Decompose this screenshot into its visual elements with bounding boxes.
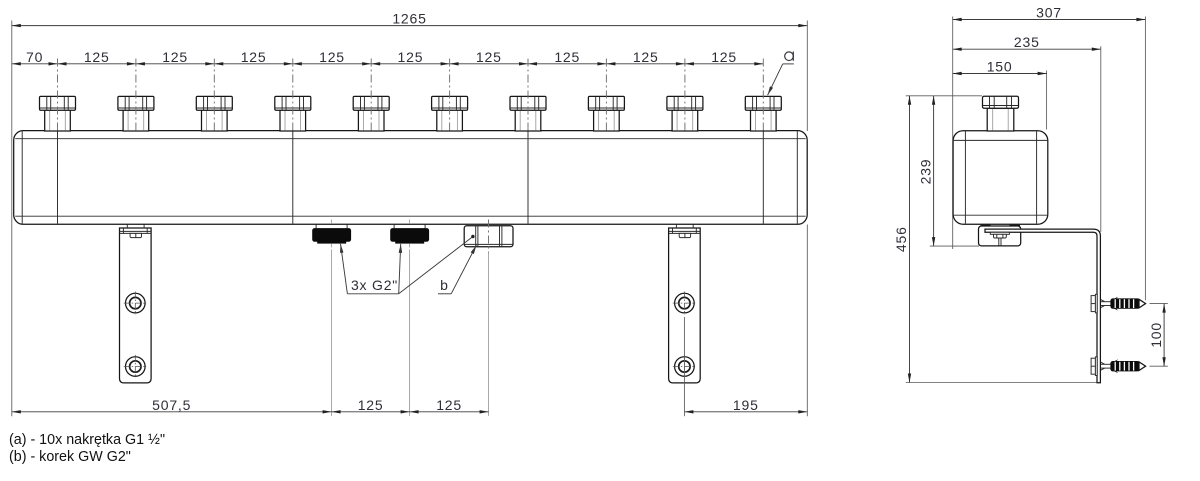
union nut N2 <box>118 59 154 132</box>
bottom dimension chain 507,5 / 125 / 125 <box>12 411 489 413</box>
svg-text:235: 235 <box>1014 34 1040 50</box>
union nut N8 <box>588 59 624 132</box>
dimension 307 <box>953 19 1146 21</box>
union nut N5 <box>353 59 389 132</box>
svg-text:100: 100 <box>1148 322 1164 348</box>
svg-text:456: 456 <box>893 226 909 252</box>
chamber weld seam 1 <box>57 131 59 224</box>
svg-text:125: 125 <box>241 49 267 65</box>
svg-text:195: 195 <box>733 397 759 413</box>
union nut N10 <box>745 59 781 132</box>
svg-text:150: 150 <box>987 58 1013 74</box>
svg-text:125: 125 <box>476 49 502 65</box>
leader label b <box>438 245 476 294</box>
union nut N1 <box>40 59 76 132</box>
note a <box>9 432 165 448</box>
svg-text:307: 307 <box>1036 4 1062 20</box>
mounting bracket W1 <box>120 224 152 383</box>
dimension 195 <box>684 411 807 413</box>
plug b (korek GW G2) <box>464 220 513 416</box>
mounting bracket W2 <box>669 224 701 383</box>
side view extension lines <box>952 17 954 250</box>
union nut N6 <box>432 59 468 132</box>
dimension 235 <box>953 48 1101 50</box>
svg-text:3x G2": 3x G2" <box>351 277 398 293</box>
leader label a <box>768 52 794 96</box>
bottom outlet cap K1 (black) <box>313 220 351 416</box>
dimension 1265 overall length <box>12 25 808 27</box>
wall anchor screw S1 <box>1091 294 1146 313</box>
svg-text:125: 125 <box>554 49 580 65</box>
svg-text:70: 70 <box>26 49 43 65</box>
svg-text:125: 125 <box>84 49 110 65</box>
side view union nut <box>983 96 1019 131</box>
union nut N4 <box>275 59 311 132</box>
dimension 150 <box>953 73 1047 75</box>
dimension chain 70 + 9x125 <box>12 63 764 65</box>
side view stud washer and nut <box>990 232 1009 245</box>
left end cap seam <box>21 131 23 224</box>
svg-text:1265: 1265 <box>392 11 426 27</box>
svg-text:b: b <box>440 277 448 293</box>
body top tangent line <box>15 138 806 140</box>
right end cap seam <box>796 131 798 224</box>
chamber weld seam 2 <box>292 131 294 224</box>
body bottom tangent line <box>15 215 806 217</box>
svg-text:125: 125 <box>358 397 384 413</box>
bottom outlet cap K2 (black) <box>391 220 429 416</box>
chamber weld seam 4 <box>762 131 764 224</box>
union nut N9 <box>667 59 703 132</box>
extension line left <box>11 21 13 417</box>
wall bracket L-profile (side) <box>985 229 1100 383</box>
union nut N3 <box>196 59 232 132</box>
dimension 239 <box>933 96 935 246</box>
svg-text:507,5: 507,5 <box>152 397 191 413</box>
chamber weld seam 3 <box>527 131 529 224</box>
side view manifold body <box>953 131 1048 225</box>
svg-text:125: 125 <box>162 49 188 65</box>
dimension 456 <box>909 96 911 383</box>
svg-text:125: 125 <box>711 49 737 65</box>
side view bottom union nut <box>979 225 1021 246</box>
svg-text:125: 125 <box>436 397 462 413</box>
svg-text:125: 125 <box>398 49 424 65</box>
leader label 3x G2&quot; <box>340 235 474 294</box>
manifold body <box>14 131 808 225</box>
svg-text:125: 125 <box>633 49 659 65</box>
dimension 100 <box>1163 304 1165 367</box>
extension line right <box>806 21 808 132</box>
extension line bracket W2 center <box>683 317 685 416</box>
union nut N7 <box>510 59 546 132</box>
note b <box>9 449 131 465</box>
svg-text:239: 239 <box>917 159 933 185</box>
wall anchor screw S2 <box>1091 357 1146 376</box>
svg-text:125: 125 <box>319 49 345 65</box>
